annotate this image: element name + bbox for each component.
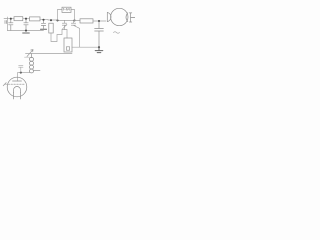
wire R1 to node B — [23, 18, 30, 20]
input stub — [4, 18, 8, 20]
bus middle — [26, 53, 73, 55]
capacitor C7 — [19, 65, 23, 72]
node C — [42, 19, 44, 21]
tube V1 anode — [13, 80, 22, 82]
node B — [25, 18, 27, 20]
R4 value 2-2k — [63, 8, 69, 10]
transformer T1 box — [64, 38, 72, 52]
tube V1 heater leads — [14, 93, 21, 100]
C5 output jog — [74, 25, 80, 47]
ground symbol 2 — [41, 28, 47, 30]
resistor R3 vertical — [49, 23, 53, 33]
label under phones — [114, 32, 120, 34]
wire R5 to phones — [93, 20, 106, 22]
ground symbol 3 — [95, 47, 103, 52]
phones envelope circle — [111, 8, 128, 25]
node A — [10, 18, 12, 20]
phones left cup — [107, 12, 111, 21]
input plate — [5, 21, 7, 24]
capacitor C3 — [41, 21, 45, 29]
C4 arrow — [62, 24, 67, 29]
potentiometer arrow — [27, 50, 33, 57]
wire R3 bottom staircase — [51, 30, 67, 42]
wire top main middle — [58, 19, 75, 21]
wire left vertical — [7, 17, 9, 31]
ground bus lower-left — [8, 30, 44, 32]
resistor R5 — [80, 19, 93, 23]
resistor R1 — [14, 17, 23, 21]
wire R2 to node C — [40, 18, 48, 20]
phones right tick — [131, 17, 135, 19]
tube V1 lead top — [17, 73, 19, 81]
inductor L1 — [31, 54, 33, 58]
resistor R4 — [62, 7, 71, 12]
capacitor C1 — [9, 20, 13, 31]
wire node C to node D — [48, 19, 58, 21]
tube V1 grid lead — [5, 83, 9, 85]
phones right bar — [129, 13, 131, 22]
wire top main right — [75, 20, 81, 22]
node G — [98, 20, 100, 22]
resistor R2 — [30, 17, 41, 21]
wire top main left — [8, 18, 15, 20]
capacitor C2 — [24, 20, 28, 31]
capacitor C6 — [95, 22, 104, 47]
capacitor C5 trimmer — [71, 20, 75, 25]
wire T1 to node H — [72, 46, 99, 48]
tube V1 grid — [8, 83, 25, 85]
T1 inner mark — [66, 47, 69, 50]
node F — [73, 19, 75, 21]
tube V1 envelope — [7, 77, 27, 97]
node G1 — [25, 30, 27, 32]
tube V1 cathode dome — [14, 87, 21, 93]
ground symbol 1 — [23, 32, 30, 34]
node J — [20, 72, 22, 74]
feedback loop wire — [58, 10, 75, 21]
wire coil bottom — [18, 71, 41, 73]
node E — [56, 19, 58, 21]
grid lead end mark — [3, 83, 6, 86]
phones right electrode arc — [126, 13, 128, 22]
node H — [98, 46, 100, 48]
wire bus stub left — [25, 56, 30, 58]
capacitor C4 trimmer — [62, 20, 66, 29]
node D — [50, 19, 52, 21]
